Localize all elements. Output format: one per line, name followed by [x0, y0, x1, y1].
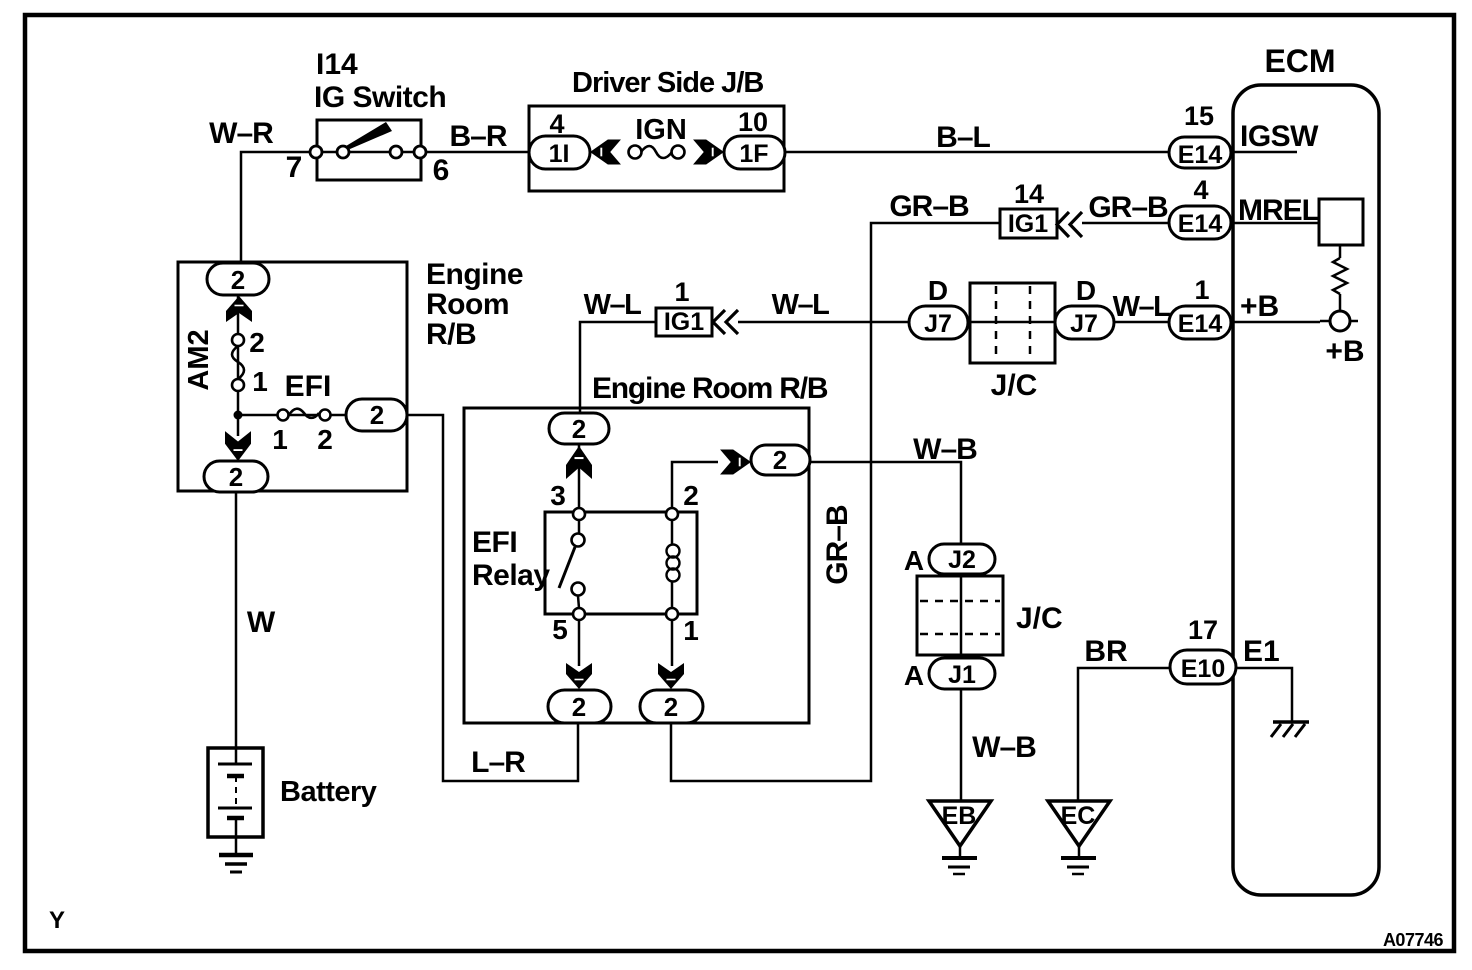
svg-text:10: 10 — [738, 107, 768, 137]
svg-text:1: 1 — [683, 615, 699, 646]
svg-text:J1: J1 — [948, 661, 976, 689]
svg-text:EFI: EFI — [285, 370, 332, 403]
svg-text:Engine Room R/B: Engine Room R/B — [592, 372, 828, 405]
svg-text:17: 17 — [1188, 615, 1218, 645]
arrow into 1F — [693, 140, 724, 165]
connector 1F — [724, 136, 785, 169]
svg-text:BR: BR — [1084, 635, 1128, 668]
wire MREL stub — [1231, 222, 1319, 225]
svg-text:2: 2 — [773, 445, 787, 475]
wire inside switch — [316, 151, 421, 154]
svg-text:GR–B: GR–B — [821, 505, 854, 585]
wire BR from EC up to E10 — [1078, 668, 1200, 801]
wire pin5 down — [578, 620, 581, 666]
svg-text:GR–B: GR–B — [889, 190, 969, 223]
svg-text:W–R: W–R — [209, 117, 274, 150]
terminal E14 (+B) — [1169, 306, 1231, 339]
arrow right into connector 2 — [720, 450, 751, 475]
wire B-R switch to J/B — [427, 151, 532, 154]
arrow down into connector (pin5) — [566, 663, 592, 689]
wire relay pin3 up to connector — [578, 443, 581, 512]
svg-text:6: 6 — [433, 154, 450, 187]
switch contact circles — [310, 146, 322, 158]
fuse EFI — [278, 410, 289, 421]
svg-text:IGSW: IGSW — [1240, 120, 1319, 153]
chassis ground — [1273, 720, 1309, 724]
svg-text:W: W — [247, 606, 276, 639]
relay coil — [671, 520, 674, 545]
wire IGSW stub — [1200, 151, 1297, 154]
wire W-R from ignition switch down to AM2 block — [241, 152, 311, 264]
wire L-R from EFI connector to relay pin5 connector — [407, 415, 578, 781]
connector 2 (below pin 1) — [640, 690, 703, 723]
svg-text:Battery: Battery — [280, 776, 377, 808]
resistor to +B node — [1339, 245, 1342, 258]
svg-text:1: 1 — [252, 366, 268, 397]
svg-text:IG1: IG1 — [664, 308, 704, 336]
battery box — [208, 748, 263, 837]
open chevrons into IG1 row3 — [713, 310, 738, 334]
svg-text:A: A — [904, 545, 924, 576]
J/C box (row3) — [970, 283, 1055, 363]
svg-text:E10: E10 — [1181, 655, 1225, 683]
svg-text:E14: E14 — [1178, 210, 1223, 238]
svg-text:1: 1 — [1194, 275, 1209, 305]
battery ground — [219, 853, 253, 858]
svg-text:AM2: AM2 — [183, 329, 215, 390]
connector IG1 (row2) — [1000, 209, 1057, 238]
svg-text:+B: +B — [1240, 290, 1279, 323]
wire AM2 — [237, 295, 240, 412]
svg-text:IGN: IGN — [635, 114, 687, 146]
wire W-L middle segment — [738, 321, 1200, 324]
svg-text:A07746: A07746 — [1383, 930, 1444, 950]
svg-text:EFI: EFI — [472, 526, 517, 559]
svg-text:J/C: J/C — [991, 369, 1038, 402]
svg-text:W–B: W–B — [972, 731, 1036, 764]
svg-text:E14: E14 — [1178, 141, 1223, 169]
svg-text:2: 2 — [370, 400, 384, 430]
svg-text:W–L: W–L — [772, 289, 830, 321]
terminal J2 — [929, 544, 995, 574]
svg-text:Y: Y — [49, 907, 65, 934]
wire E1 to chassis ground — [1236, 668, 1292, 722]
terminal E10 — [1170, 650, 1236, 684]
svg-text:+B: +B — [1325, 335, 1364, 368]
svg-text:1: 1 — [272, 424, 288, 455]
svg-text:ECM: ECM — [1264, 43, 1335, 79]
svg-text:1: 1 — [674, 277, 689, 307]
wire pin1 down — [671, 620, 674, 666]
ECM body — [1233, 85, 1379, 895]
terminal J7 (left) — [909, 306, 968, 339]
svg-text:2: 2 — [317, 424, 333, 455]
terminal E14 (MREL) — [1169, 206, 1231, 239]
wire B-L from 1F to ECM pin E14-15 — [785, 151, 1200, 154]
svg-text:2: 2 — [231, 265, 245, 295]
MREL relay coil box — [1319, 199, 1363, 245]
svg-text:2: 2 — [683, 480, 699, 511]
svg-text:2: 2 — [572, 414, 586, 444]
battery cells — [218, 763, 252, 766]
svg-text:J2: J2 — [948, 546, 976, 574]
connector 2 (top of AM2) — [207, 263, 269, 295]
wire down to lower connector — [237, 415, 240, 436]
connector 1I — [529, 136, 590, 169]
svg-text:Engine: Engine — [426, 258, 523, 291]
svg-text:W–L: W–L — [1113, 291, 1171, 323]
svg-text:4: 4 — [1193, 175, 1208, 205]
Driver Side J/B box — [529, 106, 784, 191]
arrow up into connector 2 — [226, 296, 252, 322]
switch lever — [346, 122, 392, 149]
Engine Room R/B box (left) — [178, 262, 407, 491]
wire W-B J1 to EB — [960, 689, 963, 801]
relay switch — [578, 520, 581, 534]
wire W-B to J2 — [810, 462, 961, 548]
terminal E14 (IGSW) — [1169, 137, 1231, 168]
IG switch I14 box — [317, 120, 421, 180]
J/C box (J2/J1) — [917, 576, 1003, 655]
terminal J1 — [929, 658, 995, 689]
ground EB — [929, 801, 991, 846]
svg-text:E14: E14 — [1178, 310, 1223, 338]
svg-text:D: D — [928, 275, 948, 306]
wire W battery feed — [235, 492, 238, 764]
wire +B from E14 to node — [1231, 321, 1320, 324]
svg-text:2: 2 — [229, 462, 243, 492]
svg-text:W–B: W–B — [913, 433, 977, 466]
+B node circle — [1320, 320, 1358, 323]
wire EFI fuse — [238, 414, 350, 417]
Engine Room R/B box (middle) — [464, 408, 809, 723]
fuse AM2 — [232, 334, 244, 346]
svg-text:IG1: IG1 — [1008, 210, 1048, 238]
arrow down into lower connector 2 — [225, 431, 251, 461]
connector 2 (W-B output) — [751, 445, 810, 475]
svg-text:W–L: W–L — [584, 289, 642, 321]
connector 2 (top, W-L input) — [549, 413, 609, 444]
svg-text:5: 5 — [552, 614, 568, 645]
arrow into 1I — [590, 140, 621, 165]
svg-text:Room: Room — [426, 288, 509, 321]
svg-text:B–L: B–L — [936, 121, 990, 154]
connector 2 (EFI output) — [346, 399, 407, 431]
svg-text:Driver Side J/B: Driver Side J/B — [572, 67, 763, 99]
svg-text:15: 15 — [1184, 101, 1214, 131]
connector IG1 (row3) — [656, 308, 712, 336]
svg-text:EB: EB — [942, 802, 977, 830]
svg-text:A: A — [904, 660, 924, 691]
svg-text:J7: J7 — [1070, 310, 1098, 338]
wire from Engine Room R/B to IG1 row3 — [580, 322, 656, 414]
svg-text:IG Switch: IG Switch — [314, 81, 446, 114]
svg-text:14: 14 — [1014, 179, 1044, 209]
svg-text:2: 2 — [572, 692, 586, 722]
svg-text:J7: J7 — [924, 310, 952, 338]
svg-text:3: 3 — [550, 480, 566, 511]
svg-text:I14: I14 — [316, 48, 358, 81]
ground EC — [1048, 801, 1110, 846]
svg-text:B–R: B–R — [449, 120, 507, 153]
wire GR-B right segment — [1082, 222, 1200, 225]
svg-text:D: D — [1076, 275, 1096, 306]
EFI relay box — [545, 512, 697, 614]
connector 2 (bottom, to battery) — [204, 461, 268, 492]
svg-text:Relay: Relay — [472, 559, 550, 592]
svg-text:E1: E1 — [1243, 635, 1280, 668]
fuse IGN — [629, 146, 642, 159]
terminal J7 (right) — [1055, 306, 1114, 339]
svg-text:1F: 1F — [739, 140, 768, 168]
svg-text:R/B: R/B — [426, 318, 476, 351]
svg-text:1I: 1I — [549, 140, 570, 168]
open chevrons into IG1 row2 — [1057, 212, 1082, 237]
svg-text:L–R: L–R — [471, 746, 526, 779]
junction node — [234, 411, 243, 420]
svg-text:GR–B: GR–B — [1088, 191, 1168, 224]
svg-text:7: 7 — [286, 151, 303, 184]
arrow up into top connector 2 — [566, 446, 592, 479]
svg-text:EC: EC — [1061, 802, 1096, 830]
wire GR-B left segment — [671, 223, 1000, 781]
svg-text:2: 2 — [249, 327, 265, 358]
arrow down into connector (pin1) — [658, 663, 684, 689]
svg-text:2: 2 — [664, 692, 678, 722]
connector 2 (below pin 5) — [548, 690, 611, 723]
wire pin2 up and right — [672, 462, 718, 508]
svg-text:J/C: J/C — [1016, 602, 1063, 635]
